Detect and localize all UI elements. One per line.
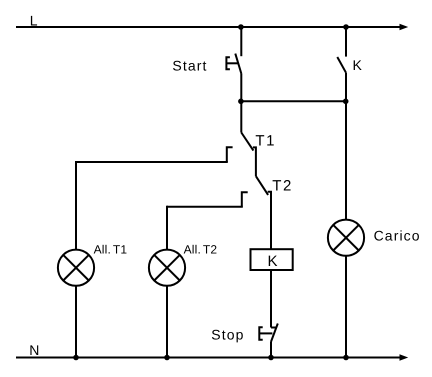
svg-text:T1: T1: [113, 243, 128, 257]
wire: K contact bottom to rung junction: [345, 73, 347, 102]
svg-text:All.: All.: [184, 243, 201, 257]
node: N / lamp All.T2 junction: [164, 355, 170, 361]
svg-text:L: L: [30, 12, 39, 28]
wire: rung between start column and K column: [241, 100, 346, 102]
wire: lamp All.T1 column upper: [75, 161, 77, 250]
thermal contact T2: [242, 176, 293, 207]
wire: L rail to Start top terminal: [240, 27, 242, 56]
node: rung right junction: [343, 99, 349, 105]
power rail N: [16, 342, 408, 361]
wire: lamp All.T2 to N rail: [166, 286, 168, 358]
wire: lamp All.T1 to N rail: [75, 286, 77, 358]
svg-text:All.: All.: [94, 243, 111, 257]
pushbutton Stop (NC): [211, 324, 277, 343]
wire: L rail to K contact top terminal: [345, 27, 347, 57]
wire: Stop bottom to N rail: [270, 342, 272, 358]
wire: rung to T1 top terminal: [240, 101, 242, 132]
wire: K column down to lamp Carico: [345, 101, 347, 219]
contact K (NO, relay contact): [337, 57, 363, 73]
node: N / lamp All.T1 junction: [73, 355, 79, 361]
svg-text:Carico: Carico: [374, 227, 421, 243]
svg-text:T2: T2: [203, 243, 218, 257]
wire: T1 output elbow down to T2 top terminal: [253, 147, 256, 176]
wire: Start bottom to rung junction: [240, 74, 242, 102]
wire: lamp All.T2 column upper: [166, 206, 168, 250]
node: L / K column junction: [343, 24, 349, 30]
svg-text:Start: Start: [172, 58, 207, 74]
coil K (relay coil): [251, 249, 293, 270]
svg-text:T2: T2: [272, 177, 293, 194]
node: N / Carico column junction: [343, 355, 349, 361]
lamp Carico: [328, 220, 421, 256]
svg-text:K: K: [353, 57, 363, 73]
thermal contact T1: [227, 133, 276, 163]
power rail L: [16, 12, 408, 30]
wire: lamp Carico to N rail: [345, 256, 347, 358]
lamp All. T1: [58, 243, 128, 286]
svg-text:K: K: [267, 253, 279, 270]
node: rung left junction: [238, 99, 244, 105]
wire: T1 branch horizontal to lamp All.T1 column: [76, 161, 228, 163]
wire: coil K to Stop top terminal: [270, 270, 272, 328]
wire: T2 output elbow down to coil K: [268, 192, 271, 249]
node: N / stop column junction: [268, 355, 274, 361]
svg-text:N: N: [29, 342, 40, 358]
svg-text:T1: T1: [255, 133, 276, 150]
pushbutton Start (NO): [172, 54, 241, 74]
lamp All. T2: [149, 243, 218, 286]
wire: T2 branch horizontal to lamp All.T2 column: [167, 206, 243, 208]
node: L / start column junction: [238, 24, 244, 30]
svg-text:Stop: Stop: [211, 327, 244, 343]
